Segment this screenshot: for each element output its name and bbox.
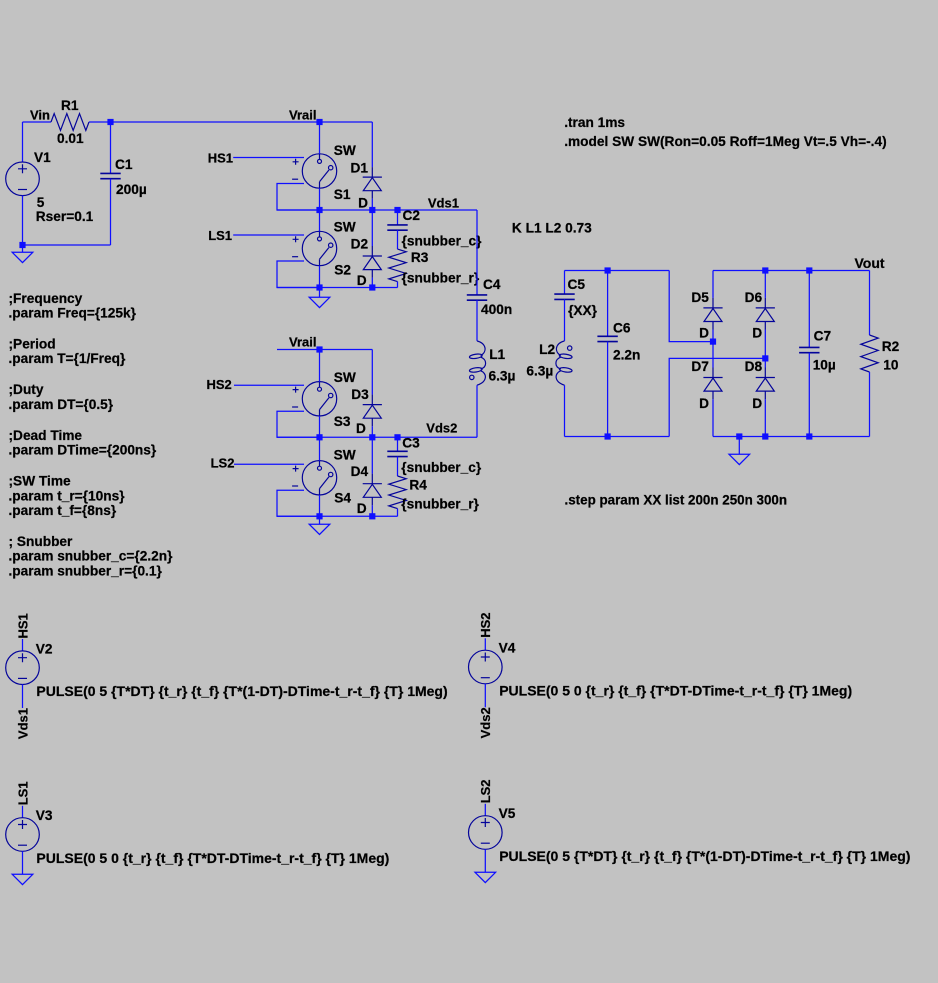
svg-text:D: D [699,325,709,340]
wire (tank top) [565,270,670,272]
wire [110,122,112,173]
junction [316,346,322,352]
svg-text:.model SW SW(Ron=0.05 Roff=1Me: .model SW SW(Ron=0.05 Roff=1Meg Vt=.5 Vh… [564,134,886,149]
wire [371,210,373,246]
node Vin wire (V1 top) [22,122,24,162]
junction [736,433,742,439]
ground [309,524,330,534]
wire (Vds1 row) [277,209,477,211]
wire [564,271,566,295]
junction [605,267,611,273]
svg-text:.param t_r={10ns}: .param t_r={10ns} [9,488,126,503]
svg-text:Vds1: Vds1 [428,196,459,211]
svg-text:PULSE(0 5 {T*DT} {t_r} {t_f} {: PULSE(0 5 {T*DT} {t_r} {t_f} {T*(1-DT)-D… [499,848,910,864]
svg-text:2.2n: 2.2n [613,347,640,362]
svg-text:6.3µ: 6.3µ [526,364,553,379]
capacitor C4 [467,295,487,300]
wire (LS2 to S4 +) [234,463,304,465]
svg-text:V1: V1 [34,150,51,165]
svg-text:Vrail: Vrail [289,335,316,350]
svg-text:C6: C6 [613,320,631,335]
wire [319,495,321,516]
switch S1 (SW) [292,154,337,188]
wire [484,804,486,816]
wire [397,437,399,451]
wire [22,851,24,874]
wire [712,399,714,436]
svg-text:V2: V2 [36,641,53,656]
diode D8 [756,368,775,400]
svg-text:D: D [358,195,368,210]
wire [23,244,111,246]
wire (HS2 to S3 +) [234,384,304,386]
wire [397,282,399,288]
svg-text:R3: R3 [411,250,429,265]
resistor R1 [51,114,89,131]
wire [397,509,399,517]
svg-text:10µ: 10µ [813,358,836,373]
svg-text:S1: S1 [334,187,351,202]
junction [806,433,812,439]
wire [22,685,24,709]
junction [316,207,322,213]
svg-text:PULSE(0 5 0 {t_r} {t_f} {T*DT-: PULSE(0 5 0 {t_r} {t_f} {T*DT-DTime-t_r-… [499,682,852,698]
wire [22,196,24,245]
svg-text:D: D [752,396,762,411]
svg-text:HS2: HS2 [207,377,232,392]
wire [397,230,399,249]
svg-text:V4: V4 [499,641,516,656]
wire [808,353,810,437]
svg-text:; Snubber: ; Snubber [9,534,74,549]
svg-text:Rser=0.1: Rser=0.1 [36,209,94,224]
svg-text:L2: L2 [539,342,555,357]
diode D7 [703,368,722,400]
svg-text:D1: D1 [351,160,369,175]
svg-text:L1: L1 [489,347,505,362]
capacitor C3 [387,451,407,456]
svg-text:LS1: LS1 [15,781,30,805]
inductor L2 [556,341,572,385]
voltage source V4 [469,650,503,684]
svg-text:;Period: ;Period [9,337,56,352]
svg-text:.param Freq={125k}: .param Freq={125k} [9,306,137,321]
svg-text:;Duty: ;Duty [9,382,44,397]
inductor L1 [469,341,485,385]
wire [397,210,399,225]
svg-text:Vout: Vout [855,255,885,271]
svg-text:{snubber_c}: {snubber_c} [401,460,482,475]
junction [369,513,375,519]
junction [369,207,375,213]
wire (Vout top rail) [713,270,870,272]
wire [476,385,478,437]
resistor R4 [389,476,406,509]
svg-text:D2: D2 [351,236,369,251]
wire [476,300,478,341]
svg-text:.param DTime={200ns}: .param DTime={200ns} [9,443,157,458]
svg-text:S3: S3 [334,414,351,429]
svg-text:LS2: LS2 [478,779,493,803]
svg-text:;Dead Time: ;Dead Time [9,428,83,443]
svg-text:PULSE(0 5 {T*DT} {t_r} {t_f} {: PULSE(0 5 {T*DT} {t_r} {t_f} {T*(1-DT)-D… [36,683,447,699]
svg-text:400n: 400n [481,302,512,317]
wire [371,350,373,395]
wire [277,411,320,437]
svg-text:6.3µ: 6.3µ [489,368,516,383]
svg-text:{snubber_r}: {snubber_r} [401,497,479,512]
svg-text:D: D [752,325,762,340]
wire [712,271,714,298]
svg-text:D4: D4 [351,464,369,479]
svg-text:D: D [357,501,367,516]
svg-text:;SW Time: ;SW Time [9,474,71,489]
svg-text:S2: S2 [334,263,351,278]
ground [309,297,330,307]
svg-text:.param snubber_c={2.2n}: .param snubber_c={2.2n} [9,549,174,564]
switch S2 (SW) [292,231,337,265]
junction [394,434,400,440]
wire [277,490,320,516]
junction [762,267,768,273]
svg-text:V3: V3 [36,808,53,823]
wire [319,266,321,288]
junction [369,434,375,440]
capacitor C6 [597,336,617,341]
svg-text:.tran 1ms: .tran 1ms [564,115,625,130]
wire (bottom rail) [713,436,870,438]
diode D5 [703,298,722,330]
wire [397,457,399,476]
svg-text:R1: R1 [61,98,79,113]
svg-text:Vds2: Vds2 [426,421,457,436]
wire [484,849,486,872]
svg-text:D6: D6 [745,290,763,305]
diode D6 [756,298,775,330]
ground [12,252,33,262]
svg-text:PULSE(0 5 0 {t_r} {t_f} {T*DT-: PULSE(0 5 0 {t_r} {t_f} {T*DT-DTime-t_r-… [36,850,389,866]
ground [475,872,496,882]
wire [564,299,566,341]
wire [371,199,373,210]
svg-text:SW: SW [334,370,356,385]
svg-text:D: D [357,273,367,288]
wire (ground stub) [22,245,24,252]
wire [110,179,112,245]
wire (ground stub) [319,516,321,524]
svg-text:{snubber_r}: {snubber_r} [402,270,480,285]
svg-text:Vrail: Vrail [289,107,316,122]
svg-text:.param snubber_r={0.1}: .param snubber_r={0.1} [9,563,163,578]
svg-text:C2: C2 [403,208,421,223]
svg-text:V5: V5 [499,806,516,821]
svg-text:K L1 L2 0.73: K L1 L2 0.73 [512,221,592,236]
wire (Vds2 row) [277,436,477,438]
wire [712,342,714,368]
junction [394,207,400,213]
switch S3 (SW) [292,382,337,416]
resistor R2 [861,335,878,372]
wire [319,437,321,460]
ground [12,874,33,884]
junction [316,119,322,125]
voltage source V5 [469,816,503,850]
voltage source V2 [6,651,40,685]
svg-text:HS1: HS1 [208,150,233,165]
svg-text:SW: SW [334,143,356,158]
diode D1 [363,167,382,199]
wire (Vrail stub) [277,349,372,351]
svg-text:C5: C5 [568,277,586,292]
wire [669,271,713,342]
wire [371,278,373,288]
wire [869,271,871,336]
wire [764,358,766,367]
wire (ground stub) [738,437,740,455]
svg-text:{XX}: {XX} [568,303,598,318]
junction [369,284,375,290]
svg-text:C3: C3 [402,435,420,450]
svg-text:.param T={1/Freq}: .param T={1/Freq} [9,351,126,366]
capacitor C5 [554,294,574,299]
diode D4 [363,474,382,506]
wire [869,372,871,437]
svg-text:Vds2: Vds2 [478,707,493,738]
voltage source V1 [6,162,40,196]
wire [319,210,321,231]
wire [484,684,486,708]
switch S4 (SW) [292,461,337,495]
wire [371,505,373,516]
wire [669,358,765,436]
junction [316,513,322,519]
wire (LS1 to S2 +) [233,234,304,236]
junction [710,339,716,345]
junction [316,434,322,440]
ground [729,454,750,464]
svg-text:D8: D8 [745,359,763,374]
svg-text:D3: D3 [351,387,369,402]
svg-text:D7: D7 [691,359,709,374]
capacitor C7 [799,347,819,352]
wire [564,385,566,436]
wire [277,261,320,288]
svg-text:10: 10 [883,358,899,373]
svg-text:D5: D5 [691,290,709,305]
svg-text:SW: SW [334,447,356,462]
svg-text:C7: C7 [814,329,832,344]
wire [764,330,766,359]
svg-text:200µ: 200µ [116,182,147,197]
wire [23,121,52,123]
svg-text:HS1: HS1 [15,613,30,638]
svg-text:HS2: HS2 [478,613,493,638]
svg-text:LS2: LS2 [211,456,235,471]
svg-text:C1: C1 [115,157,133,172]
wire [319,122,321,154]
resistor R3 [389,249,406,282]
svg-text:Vds1: Vds1 [15,708,30,739]
wire [371,122,373,167]
svg-text:R2: R2 [882,339,900,354]
junction [107,119,113,125]
wire [277,184,320,211]
junction [605,433,611,439]
wire [607,342,609,437]
wire [371,437,373,473]
svg-text:SW: SW [334,220,356,235]
diode D2 [363,246,382,278]
svg-text:.param t_f={8ns}: .param t_f={8ns} [9,503,117,518]
voltage source V3 [6,818,40,852]
wire [319,350,321,382]
svg-text:S4: S4 [334,490,351,505]
svg-text:R4: R4 [409,477,427,492]
wire [89,121,372,123]
svg-text:.step param XX list 200n 250n: .step param XX list 200n 250n 300n [565,492,788,507]
wire [476,210,478,295]
svg-text:D: D [356,421,366,436]
svg-text:Vin: Vin [30,108,50,123]
svg-text:0.01: 0.01 [57,131,84,146]
junction [19,242,25,248]
svg-text:;Frequency: ;Frequency [9,291,83,306]
capacitor C2 [387,225,407,230]
wire [808,271,810,348]
svg-text:C4: C4 [483,277,501,292]
junction [316,284,322,290]
wire (bottom row) [277,515,398,517]
wire [22,639,24,651]
junction [762,355,768,361]
wire (ground stub) [319,288,321,298]
svg-text:{snubber_c}: {snubber_c} [402,233,483,248]
wire [319,416,321,437]
capacitor C1 [100,173,120,178]
wire [371,426,373,437]
svg-text:LS1: LS1 [208,228,232,243]
wire [319,188,321,210]
svg-text:D: D [699,396,709,411]
wire [22,806,24,818]
wire [484,638,486,650]
wire (HS1 to S1 +) [233,157,304,159]
wire (bottom row) [277,287,398,289]
wire (tank bottom) [565,436,670,438]
diode D3 [363,395,382,427]
junction [762,433,768,439]
wire [764,399,766,436]
wire [764,271,766,298]
wire [712,330,714,342]
svg-text:.param DT={0.5}: .param DT={0.5} [9,397,114,412]
junction [806,267,812,273]
wire [607,271,609,337]
